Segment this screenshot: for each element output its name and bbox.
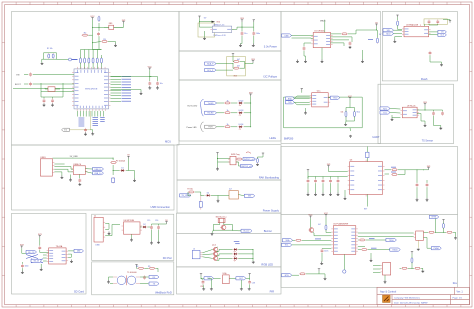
fuse F1 (98, 16, 100, 22)
wire (345, 121, 347, 124)
ground (252, 44, 255, 47)
capacitor C21 (349, 41, 352, 45)
wire (325, 217, 327, 226)
resistor R16 (391, 169, 398, 171)
wire (429, 34, 438, 36)
net label (122, 89, 132, 91)
wire (319, 274, 325, 278)
junction (249, 102, 252, 105)
wire (306, 273, 319, 275)
svg-text:Company: WS Multimeters: Company: WS Multimeters (394, 297, 421, 300)
wire (331, 33, 342, 35)
wire (232, 61, 235, 63)
sensor IC U11 (348, 160, 385, 197)
label LED (234, 241, 240, 243)
wire (322, 177, 324, 179)
wire (253, 36, 255, 44)
wire (242, 158, 244, 160)
wire (54, 172, 62, 176)
LED (238, 100, 244, 106)
wire (307, 172, 309, 179)
svg-text:4k7: 4k7 (237, 66, 240, 68)
wire (111, 78, 122, 80)
port PIR OUT (236, 277, 246, 280)
junction (44, 87, 47, 90)
wire (394, 33, 403, 35)
wire (241, 36, 243, 44)
ground (424, 124, 427, 127)
block Flash (382, 12, 457, 81)
svg-text:1k: 1k (226, 100, 228, 102)
wire (104, 26, 109, 28)
DC-DC module U6 (229, 191, 238, 199)
svg-text:F2 1A: F2 1A (188, 187, 194, 190)
wire (329, 168, 348, 172)
ground (239, 44, 242, 47)
svg-text:Ver: 1: Ver: 1 (457, 290, 464, 293)
svg-text:U1 CH340C: U1 CH340C (314, 31, 325, 33)
wire (244, 102, 251, 104)
capacitor C35 (202, 280, 205, 284)
wire (218, 159, 231, 163)
svg-text:PWR-xx-x 3.3V: PWR-xx-x 3.3V (213, 35, 226, 37)
svg-text:TXD0: TXD0 (389, 240, 394, 242)
wire (144, 267, 148, 269)
wire (218, 194, 229, 196)
resistor (224, 124, 231, 128)
svg-text:VBUS: VBUS (320, 21, 326, 23)
svg-text:Rx/Tx LED: Rx/Tx LED (188, 106, 198, 108)
wire (92, 27, 94, 42)
port TXD0 (386, 238, 397, 241)
wire (433, 110, 435, 111)
wire (131, 234, 133, 238)
block UART (281, 12, 381, 144)
connector J6 (192, 249, 202, 259)
wire (330, 177, 332, 179)
svg-text:J6: J6 (193, 249, 195, 251)
svg-text:VCC: VCC (90, 16, 95, 18)
ground (240, 288, 243, 290)
wire (212, 230, 213, 233)
svg-text:Page: 1/1: Page: 1/1 (453, 298, 463, 300)
resistor R13 (341, 33, 348, 35)
wire (92, 50, 94, 56)
wire (430, 55, 442, 63)
junction (252, 252, 255, 255)
wire (43, 254, 47, 256)
block LEDs (179, 80, 281, 141)
svg-text:D2: D2 (143, 224, 145, 226)
wire (140, 226, 142, 228)
wire (217, 250, 218, 253)
wire (373, 272, 381, 274)
ground (296, 60, 299, 63)
ground (21, 271, 24, 274)
wire (292, 244, 332, 246)
port TXD (285, 101, 294, 104)
ESD protection U2 USBLC6 (71, 164, 87, 175)
wire (232, 56, 234, 62)
power flag (318, 269, 320, 271)
svg-text:USB_D+: USB_D+ (94, 173, 102, 175)
port Buzzer (241, 229, 252, 232)
capacitor C12 (150, 225, 153, 229)
junction (216, 157, 219, 160)
port SD_DO (74, 249, 84, 252)
wire (91, 111, 93, 117)
wire (322, 247, 331, 249)
wire (245, 63, 253, 65)
wire (92, 63, 94, 70)
svg-text:D1: D1 (121, 168, 123, 170)
resistor R22 (443, 223, 445, 230)
net label (122, 98, 132, 100)
wire (57, 58, 69, 60)
net label (369, 238, 375, 240)
svg-text:SWCLK_u01: SWCLK_u01 (241, 166, 252, 168)
bluetooth module U14 (400, 107, 419, 118)
fuse F3 (188, 191, 195, 193)
power flag 5V (127, 155, 130, 159)
wire (358, 249, 361, 251)
svg-text:ESP32-WROOM: ESP32-WROOM (85, 89, 98, 91)
wire (85, 172, 92, 174)
diode D2 (142, 224, 148, 228)
wire (80, 63, 82, 70)
wire (111, 92, 122, 94)
wire (201, 278, 203, 280)
svg-text:RAK Bootloading: RAK Bootloading (259, 176, 280, 180)
pull-up resistor R12 (84, 57, 86, 64)
svg-text:RX1: RX1 (383, 108, 387, 110)
wire (377, 30, 379, 38)
net label (391, 171, 396, 173)
ground (426, 198, 429, 201)
wire (435, 219, 437, 233)
power flag 3V3 (249, 92, 253, 96)
wire (45, 88, 48, 90)
wire (238, 248, 253, 250)
power flag 5V (165, 220, 168, 224)
svg-text:IO0: IO0 (64, 130, 67, 132)
wire (126, 159, 129, 171)
wire (411, 254, 413, 258)
MCU pin name fringe (77, 70, 105, 108)
ground (150, 241, 153, 244)
wire (70, 175, 72, 179)
ground (320, 262, 323, 265)
svg-text:USB: USB (95, 245, 100, 247)
wire (42, 59, 44, 62)
net label (122, 76, 132, 78)
port SCL_P (205, 69, 217, 72)
wire (294, 101, 309, 103)
wire (398, 170, 405, 175)
wire (151, 224, 153, 225)
svg-text:C38: C38 (252, 283, 255, 285)
group box caps (424, 19, 447, 25)
wire (43, 97, 45, 99)
capacitor C5 (29, 82, 32, 86)
svg-text:SCL: SCL (285, 245, 289, 247)
svg-text:U4 MP1584: U4 MP1584 (124, 220, 135, 222)
ground (349, 46, 352, 49)
svg-text:SWD Prog: SWD Prog (231, 154, 240, 156)
port IO0 (62, 128, 70, 131)
capacitor C14 (143, 275, 146, 279)
svg-text:LEDs: LEDs (270, 136, 277, 140)
wire (33, 83, 74, 85)
resistor R24 (299, 273, 306, 275)
wire 3v3 rail (232, 27, 254, 29)
wire (385, 173, 390, 175)
capacitor C1 (97, 32, 100, 36)
wire (158, 230, 160, 241)
wire (152, 223, 167, 225)
resistor R17 (391, 174, 398, 176)
wire (200, 21, 212, 23)
wire (105, 229, 109, 231)
ground (217, 199, 220, 202)
wire (111, 90, 142, 92)
port TX1 (380, 111, 390, 114)
svg-text:4k7: 4k7 (318, 224, 321, 226)
svg-text:USB Connection: USB Connection (150, 205, 170, 209)
block RGB LED (177, 234, 282, 267)
brace Power LED (200, 122, 204, 132)
wire (22, 248, 26, 253)
wire crystal loop (41, 83, 63, 97)
wire (98, 23, 100, 31)
wire (416, 170, 418, 183)
resistor R11 (257, 158, 259, 164)
wire (140, 276, 149, 278)
wire (321, 48, 323, 60)
wire olive (69, 129, 90, 131)
junction (241, 26, 244, 29)
junction (232, 62, 235, 65)
wire (294, 98, 309, 100)
port SD_DI (31, 259, 42, 262)
fuse F2 (110, 162, 117, 164)
wire (55, 88, 60, 90)
capacitor C37 (248, 280, 251, 284)
capacitor C11 (21, 264, 29, 268)
svg-text:RXD0: RXD0 (393, 249, 398, 251)
wire (54, 169, 73, 172)
wire vcc bus (81, 50, 102, 56)
power flag 5V (198, 16, 200, 18)
junction (375, 29, 378, 32)
ground (384, 280, 387, 283)
ground (421, 270, 424, 272)
svg-text:Vbat: Vbat (357, 111, 361, 114)
group box regulator (198, 23, 215, 37)
wire (204, 31, 206, 38)
wire (148, 226, 151, 228)
regulator U3 (122, 220, 143, 234)
ground (202, 288, 205, 290)
wire (149, 77, 151, 82)
net arrow 5V0 (212, 21, 220, 24)
wire (54, 167, 73, 170)
net label (79, 117, 85, 119)
wire (68, 254, 71, 257)
wire (429, 24, 438, 25)
LED (232, 248, 238, 252)
wire (244, 126, 251, 128)
port SCL (282, 243, 292, 246)
wire (40, 264, 42, 268)
svg-text:Flash: Flash (421, 77, 428, 81)
header J7 (414, 231, 424, 240)
port PWM1 (431, 247, 441, 250)
ground (344, 124, 347, 126)
block USB Connection (12, 145, 175, 210)
DC jack J3 (94, 215, 105, 242)
group box pullups (227, 57, 246, 76)
wire (24, 83, 28, 85)
svg-text:BMP280: BMP280 (284, 138, 294, 141)
wire (93, 42, 102, 43)
wire (246, 277, 250, 279)
ground (344, 197, 347, 200)
junction (112, 157, 115, 160)
ground (304, 111, 307, 114)
wire (346, 117, 355, 122)
svg-text:Buzzer: Buzzer (244, 230, 250, 233)
wire (307, 177, 309, 179)
wire (343, 254, 345, 269)
wire sensor top (366, 147, 368, 162)
wire (151, 230, 153, 241)
wire (82, 111, 84, 117)
wire (394, 37, 396, 40)
svg-text:U4 W25Q128: U4 W25Q128 (406, 24, 419, 26)
power flag (449, 21, 451, 23)
wire (370, 253, 372, 259)
ground (393, 40, 396, 43)
wire (424, 106, 426, 110)
ground (349, 135, 352, 137)
wire (195, 192, 201, 195)
port USB_D+ (93, 172, 104, 175)
net label (93, 123, 99, 125)
power flag 3V3 (232, 54, 234, 56)
wire (253, 27, 255, 31)
port RXD0 (390, 248, 401, 251)
block MCU (12, 12, 180, 146)
wire (214, 277, 221, 279)
capacitor C33 (432, 111, 435, 115)
junction (411, 267, 414, 270)
wire (417, 114, 425, 124)
USB connector J2 (40, 157, 54, 176)
ground (40, 268, 43, 271)
wire fallback (208, 278, 211, 288)
wire (366, 239, 386, 241)
port SWCLK (241, 164, 254, 167)
capacitor C13 (157, 225, 160, 229)
wire (258, 157, 264, 159)
wire vbus (324, 20, 326, 33)
resistor R7 (149, 267, 156, 269)
title block table (377, 287, 469, 304)
wire (358, 235, 414, 237)
wire (85, 168, 92, 170)
svg-text:AMS1117-3.3: AMS1117-3.3 (214, 23, 225, 26)
ground (417, 249, 420, 251)
wire (373, 268, 381, 270)
wire (424, 24, 426, 26)
port CS (438, 30, 447, 33)
wire (236, 162, 241, 166)
wire (188, 194, 191, 196)
ground (60, 176, 63, 179)
ground (252, 261, 255, 263)
svg-text:R1 10k: R1 10k (47, 48, 53, 50)
wire (43, 257, 47, 259)
wire (337, 177, 339, 179)
header U5 (228, 156, 238, 165)
power flag 3V3 (38, 234, 42, 238)
svg-text:BOOT: BOOT (15, 84, 21, 86)
ground (148, 86, 151, 89)
wire (79, 111, 81, 117)
wire (429, 31, 438, 33)
junction (434, 231, 437, 234)
svg-text:TxLED: TxLED (208, 103, 214, 105)
wire (425, 109, 434, 111)
capacitor C24 (322, 179, 325, 183)
pull-up resistor R14 (92, 57, 94, 64)
wire (77, 111, 79, 117)
svg-text:WisBlock RxD: WisBlock RxD (155, 290, 172, 294)
wire (417, 109, 425, 111)
resistor (224, 110, 231, 114)
net label (93, 125, 99, 127)
wire (33, 74, 74, 76)
wire (301, 91, 303, 93)
label 5mm (235, 243, 240, 245)
wire (111, 98, 122, 100)
wire (166, 223, 168, 225)
wire (113, 170, 119, 172)
wire led bus (250, 96, 252, 127)
svg-text:C36: C36 (200, 286, 203, 288)
ground (256, 164, 259, 166)
port SDA_P (205, 62, 217, 65)
wire olive (417, 240, 419, 248)
resistor R25 (397, 20, 399, 26)
wire (385, 169, 392, 171)
wire (384, 275, 386, 280)
svg-text:PWR: PWR (208, 127, 213, 129)
wire (328, 97, 330, 99)
wire (248, 285, 250, 289)
svg-text:LED3: LED3 (239, 110, 244, 112)
svg-text:100n: 100n (256, 33, 260, 35)
junction (252, 248, 255, 251)
ground (440, 64, 443, 67)
svg-text:U5 PCA9685PW: U5 PCA9685PW (333, 223, 348, 226)
wire (129, 171, 135, 179)
wire (315, 183, 317, 192)
block DC Pwr (92, 214, 174, 260)
svg-text:Power LED: Power LED (187, 127, 198, 129)
wire (292, 35, 314, 37)
